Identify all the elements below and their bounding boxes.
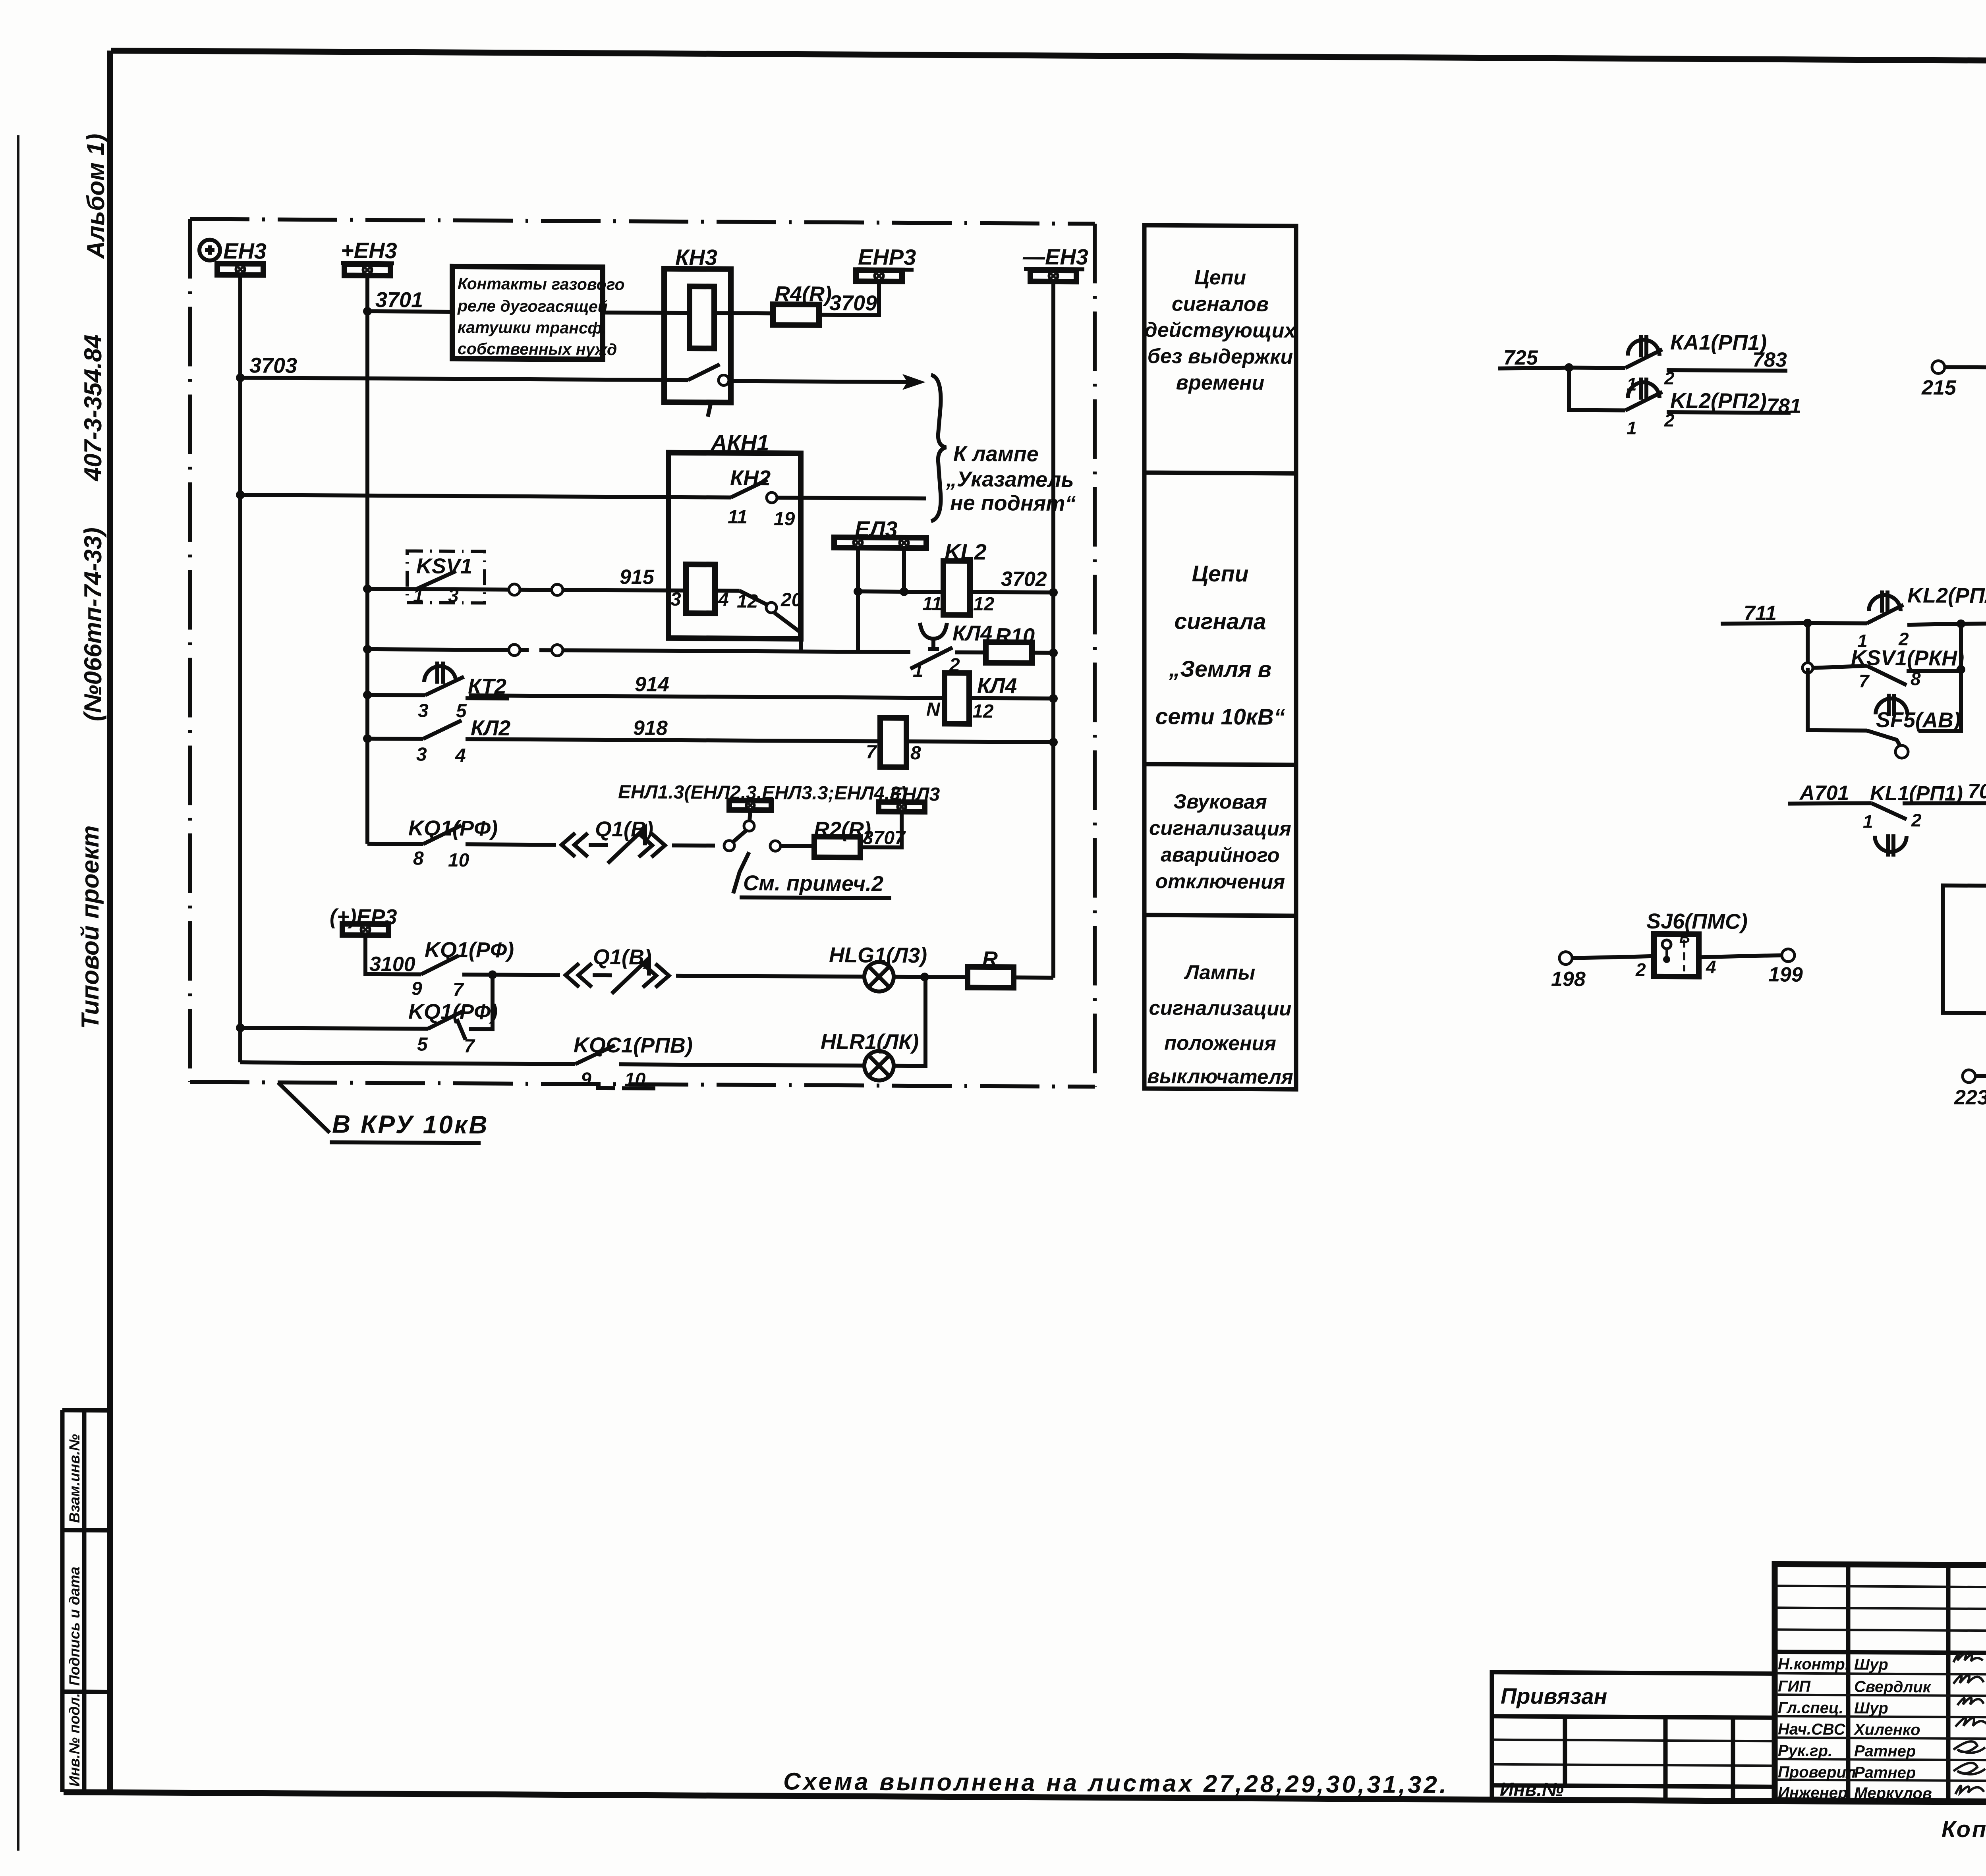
svg-text:223: 223	[1954, 1086, 1986, 1109]
svg-text:Ратнер: Ратнер	[1854, 1742, 1916, 1760]
svg-text:Привязан: Привязан	[1501, 1683, 1607, 1709]
svg-text:Контакты газового: Контакты газового	[458, 274, 625, 293]
wire KT2 coil to right bus	[906, 741, 1053, 742]
wire arrow to lamp note	[729, 381, 910, 382]
plug bar EHL3	[879, 802, 925, 812]
contact KQ1 row (audible alarm)	[367, 842, 423, 846]
svg-text:7: 7	[1859, 671, 1870, 691]
contact 12-20 of AKH1	[715, 589, 740, 593]
svg-text:Свердлик: Свердлик	[1854, 1678, 1932, 1696]
svg-text:времени: времени	[1176, 371, 1265, 395]
frame top line	[111, 50, 1986, 63]
svg-text:2: 2	[949, 655, 960, 676]
svg-text:3: 3	[418, 701, 429, 722]
svg-text:ЕНР3: ЕНР3	[858, 244, 916, 270]
leader to КРУ	[278, 1083, 330, 1133]
wire R2 to EHL3	[860, 811, 902, 847]
svg-text:Копировал: Слуцкая: Копировал: Слуцкая	[1942, 1816, 1986, 1843]
svg-text:сигнализация: сигнализация	[1149, 816, 1291, 840]
terminal -EH3 bar	[1030, 270, 1076, 282]
contact KH3 (in box)	[688, 364, 720, 380]
contact KSV1(РКН) second	[1806, 623, 1810, 668]
svg-text:3: 3	[670, 589, 681, 610]
svg-text:12: 12	[972, 701, 994, 722]
svg-text:3709: 3709	[829, 291, 877, 315]
svg-text:1: 1	[413, 585, 424, 606]
node 711 branch junction	[1803, 619, 1812, 627]
svg-text:Лампы: Лампы	[1184, 961, 1255, 984]
svg-text:2: 2	[1635, 959, 1646, 980]
selector box SJ6	[1654, 930, 1699, 977]
svg-text:Цепи: Цепи	[1192, 561, 1249, 587]
column caption 4	[1147, 961, 1293, 1088]
node KL2 row	[363, 734, 372, 743]
svg-text:KQC1(РПВ): KQC1(РПВ)	[574, 1033, 693, 1058]
svg-text:сети 10кВ“: сети 10кВ“	[1155, 704, 1285, 730]
wire 3702 to right bus	[970, 592, 1053, 593]
svg-text:реле дугогасящей: реле дугогасящей	[457, 297, 608, 316]
svg-text:2: 2	[1911, 810, 1922, 830]
svg-text:8: 8	[413, 848, 424, 869]
wire from KH2 to lamp note	[777, 498, 926, 498]
svg-text:783: 783	[1752, 348, 1787, 371]
svg-text:ЕН3: ЕН3	[223, 238, 267, 264]
relay coil KT2	[880, 718, 906, 767]
signature table row lines	[1775, 1586, 1986, 1587]
relay contact KSV1 (dash-dot box)	[407, 551, 485, 606]
svg-text:собственных нужд: собственных нужд	[458, 340, 617, 359]
svg-text:5: 5	[417, 1034, 428, 1055]
left margin rotated inscriptions	[77, 133, 110, 1029]
svg-text:12: 12	[737, 591, 758, 612]
svg-text:SJ6(ПМС): SJ6(ПМС)	[1646, 909, 1748, 934]
breaker SF5(АВ) second	[1808, 668, 1867, 731]
relay KH3 coil	[690, 286, 714, 348]
contact KL2(РП2) with flag	[1869, 591, 1901, 613]
svg-text:ГИП: ГИП	[1778, 1677, 1811, 1695]
svg-text:См. примеч.2: См. примеч.2	[743, 871, 883, 896]
wire 3701 to note box	[367, 311, 452, 312]
wire: second rail	[236, 490, 245, 499]
svg-text:10: 10	[448, 850, 469, 871]
wire bottom row	[240, 1062, 575, 1064]
circuit purpose label column	[1144, 225, 1296, 1089]
svg-text:Типовой проект: Типовой проект	[77, 825, 104, 1029]
svg-text:сигналов: сигналов	[1172, 292, 1269, 316]
svg-text:отключения: отключения	[1155, 870, 1285, 893]
svg-text:1: 1	[913, 660, 923, 681]
node R10 output at -EH3 bus	[1049, 648, 1058, 657]
wire EL3 right leg	[902, 548, 906, 592]
svg-text:Гл.спец.: Гл.спец.	[1778, 1699, 1843, 1717]
svg-text:12: 12	[973, 594, 995, 615]
svg-text:725: 725	[1503, 346, 1538, 369]
column caption 2	[1155, 561, 1285, 730]
boundary top	[190, 219, 1095, 224]
svg-text:1: 1	[1863, 811, 1873, 832]
svg-text:выключателя: выключателя	[1147, 1065, 1293, 1088]
wire: second bus from +EH3 down	[365, 276, 369, 844]
terminal EHP3 bar	[856, 270, 902, 282]
svg-text:915: 915	[620, 566, 655, 589]
node on -EH3 bus at 914 row	[1049, 694, 1058, 703]
wire: right bus from -EH3 down	[1051, 282, 1055, 978]
svg-text:3703: 3703	[249, 353, 297, 378]
strip borders	[60, 1410, 65, 1792]
svg-text:Подпись и дата: Подпись и дата	[66, 1567, 83, 1686]
svg-text:не поднят“: не поднят“	[950, 491, 1076, 516]
node 713 branch junction	[1957, 620, 1965, 628]
bottom annotations	[783, 1768, 1986, 1864]
svg-text:„Земля в: „Земля в	[1169, 656, 1271, 682]
svg-text:918: 918	[633, 716, 668, 739]
relay coil KL4	[945, 673, 969, 724]
link loop to row 221	[1943, 886, 1986, 1014]
svg-text:Инв.№: Инв.№	[1500, 1779, 1564, 1801]
bell KL4	[920, 623, 947, 649]
terminal +supply EH3 (circled plus)	[199, 240, 220, 261]
node on -EH3 bus at 918 row	[1049, 738, 1058, 747]
svg-text:19: 19	[774, 508, 795, 529]
svg-text:3: 3	[448, 585, 459, 606]
svg-text:„Указатель: „Указатель	[946, 467, 1074, 492]
signature table verticals	[1846, 1564, 1851, 1801]
svg-text:Шур: Шур	[1854, 1699, 1888, 1717]
svg-text:7: 7	[866, 741, 877, 762]
node HLG1 to HLR1 junction	[920, 973, 929, 981]
svg-text:407-3-354.84: 407-3-354.84	[79, 334, 107, 482]
boundary left	[188, 219, 192, 1082]
frame bottom line	[64, 1792, 1986, 1805]
relay KH3 box	[664, 269, 731, 403]
svg-text:(№066тп-74-33): (№066тп-74-33)	[79, 527, 107, 721]
svg-text:Инженер: Инженер	[1778, 1784, 1847, 1802]
left outer trim line	[17, 135, 19, 1851]
svg-text:А701: А701	[1799, 782, 1849, 805]
wire 914	[469, 695, 945, 698]
svg-text:KL2(РП2): KL2(РП2)	[1907, 583, 1986, 608]
svg-text:4: 4	[455, 745, 466, 766]
svg-text:N: N	[926, 699, 941, 720]
column caption 3	[1149, 790, 1291, 893]
signature scribbles	[1953, 1653, 1986, 1794]
contact KQ1 (third)	[236, 1023, 245, 1032]
wire KSV1 row	[367, 589, 508, 590]
svg-text:3100: 3100	[369, 953, 415, 976]
wire KL4 to right bus	[969, 698, 1053, 699]
terminal EH3 bar	[217, 264, 263, 275]
dashed test row	[367, 649, 509, 650]
svg-text:положения: положения	[1164, 1031, 1276, 1054]
wire from contact 20 down to bell row	[775, 613, 801, 651]
contact KA1(РП1) with flag	[1628, 335, 1660, 357]
svg-text:SF5(АВ): SF5(АВ)	[1876, 708, 1961, 732]
wire: left bus from EH3 down	[238, 275, 242, 1062]
node lamp wire junction	[488, 970, 497, 979]
device AKH1 box	[668, 453, 801, 639]
contact KL2	[367, 737, 423, 741]
svg-text:К лампе: К лампе	[953, 442, 1039, 466]
contact KL4	[910, 647, 952, 669]
node at KSV1 wire	[363, 585, 372, 593]
wire 918	[466, 739, 880, 741]
column caption 1	[1145, 266, 1297, 395]
svg-text:3702: 3702	[1001, 567, 1047, 591]
plug bar EHL1.3	[729, 801, 771, 811]
svg-text:1: 1	[1627, 417, 1637, 438]
svg-text:катушки трансф.: катушки трансф.	[458, 318, 607, 337]
svg-text:—ЕН3: —ЕН3	[1022, 244, 1088, 269]
svg-text:KQ1(РФ): KQ1(РФ)	[408, 1000, 498, 1024]
svg-text:3701: 3701	[375, 288, 423, 312]
test links on 915 wire	[509, 584, 520, 595]
svg-text:Звуковая: Звуковая	[1173, 790, 1267, 813]
svg-text:8: 8	[910, 743, 921, 764]
svg-text:Н.контр.: Н.контр.	[1778, 1655, 1849, 1673]
svg-text:198: 198	[1551, 967, 1586, 990]
node on dashed row	[363, 645, 372, 654]
svg-text:215: 215	[1921, 376, 1957, 399]
contact KL2(РП2) with flag	[1628, 377, 1660, 400]
svg-text:Схема выполнена на листах: Схема выполнена на листах 27,28,29,30,31…	[783, 1768, 1449, 1798]
svg-text:9: 9	[411, 978, 422, 999]
node 3703	[236, 373, 245, 382]
svg-text:Хиленко: Хиленко	[1853, 1721, 1920, 1739]
svg-text:+ЕН3: +ЕН3	[341, 237, 397, 263]
left margin stamp strip	[62, 1410, 110, 1793]
title block outline	[1775, 1564, 1986, 1805]
frame left border	[107, 50, 113, 1792]
svg-text:Альбом 1): Альбом 1)	[82, 133, 110, 259]
svg-text:Взам.инв.№: Взам.инв.№	[66, 1434, 83, 1523]
wire 3702 row	[858, 591, 943, 592]
svg-text:Меркулов: Меркулов	[1854, 1784, 1932, 1802]
svg-text:3: 3	[416, 744, 427, 765]
svg-text:В: В	[1679, 930, 1690, 946]
note box: contacts of gas relay	[452, 266, 625, 359]
node 3701	[363, 307, 372, 316]
wire 3703 to KH3 contact	[240, 378, 688, 380]
schematic dash-dot boundary	[190, 219, 1095, 1146]
switch from EHL1.3	[750, 810, 750, 821]
svg-text:4: 4	[1706, 956, 1716, 977]
svg-text:5: 5	[456, 701, 467, 722]
svg-text:КЛ2: КЛ2	[471, 716, 510, 740]
node EL3 right leg at 3702 wire	[900, 587, 908, 596]
svg-text:Проверил: Проверил	[1778, 1763, 1856, 1781]
svg-text:199: 199	[1768, 963, 1803, 986]
svg-text:Нач.СВС: Нач.СВС	[1778, 1720, 1846, 1738]
node EL3 left leg at 3702 wire	[854, 587, 862, 596]
svg-text:КЛ4: КЛ4	[977, 674, 1017, 698]
svg-text:20: 20	[780, 589, 802, 610]
wire EL3 left leg	[856, 548, 860, 652]
svg-text:действующих: действующих	[1145, 318, 1297, 342]
svg-text:Инв.№ подл.: Инв.№ подл.	[66, 1693, 83, 1787]
svg-text:Шур: Шур	[1854, 1656, 1888, 1673]
svg-text:11: 11	[922, 593, 942, 614]
svg-text:Рук.гр.: Рук.гр.	[1778, 1742, 1832, 1760]
node 3702 at -EH3 bus	[1049, 588, 1058, 597]
brace to lamp	[931, 375, 946, 521]
contact KT2 with flag	[367, 693, 425, 697]
signature rows text	[1778, 1655, 1986, 1803]
wire R4 to EHP3	[819, 281, 879, 315]
svg-text:KL2(РП2): KL2(РП2)	[1670, 389, 1767, 413]
svg-text:сигнала: сигнала	[1175, 608, 1266, 634]
svg-text:АКН1: АКН1	[710, 430, 769, 455]
svg-text:7: 7	[464, 1036, 475, 1057]
wire KH3 to R4	[714, 311, 773, 315]
svg-text:Цепи: Цепи	[1194, 266, 1246, 290]
terminal +EH3 bar	[344, 264, 390, 276]
branch wire down	[1569, 368, 1625, 411]
svg-text:Ратнер: Ратнер	[1854, 1764, 1916, 1781]
svg-text:7: 7	[453, 979, 464, 1000]
svg-text:В КРУ 10кВ: В КРУ 10кВ	[332, 1110, 489, 1139]
svg-text:аварийного: аварийного	[1161, 843, 1279, 867]
svg-text:KQ1(РФ): KQ1(РФ)	[425, 938, 514, 962]
relay coil AKH1	[686, 564, 715, 613]
svg-text:сигнализации: сигнализации	[1149, 996, 1291, 1020]
svg-text:9: 9	[581, 1069, 591, 1090]
boundary bottom	[190, 1082, 1095, 1087]
svg-text:HLR1(ЛК): HLR1(ЛК)	[821, 1030, 919, 1054]
node KT2 row	[363, 691, 372, 699]
boundary right	[1093, 224, 1097, 1087]
wire from note box to KH3	[603, 313, 690, 313]
svg-text:без выдержки: без выдержки	[1148, 345, 1293, 369]
node 215	[1932, 361, 1945, 373]
svg-text:709: 709	[1968, 780, 1986, 803]
node KSV1-8 junction	[1957, 665, 1965, 674]
note see remark 2	[733, 852, 749, 894]
svg-text:11: 11	[728, 507, 748, 528]
wire to KA1	[1565, 363, 1573, 372]
terminal block EL3 bar	[834, 537, 926, 548]
svg-text:КН3: КН3	[675, 245, 717, 270]
svg-text:914: 914	[635, 673, 669, 696]
